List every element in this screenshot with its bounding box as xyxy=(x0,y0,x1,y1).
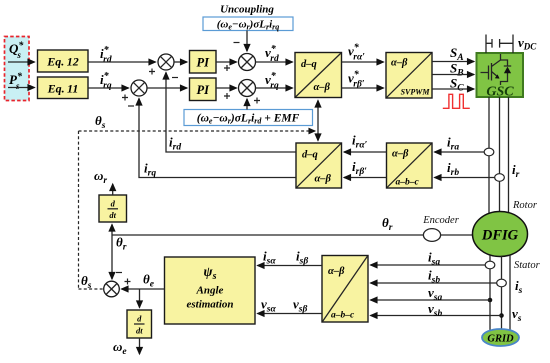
svg-text:Encoder: Encoder xyxy=(422,215,459,226)
svg-text:d: d xyxy=(111,199,116,209)
svg-text:estimation: estimation xyxy=(186,299,233,311)
svg-text:α–β: α–β xyxy=(392,149,409,160)
svg-text:α–β: α–β xyxy=(391,58,408,69)
block Eq.12 xyxy=(38,50,89,72)
wire theta-r down to J5 xyxy=(111,235,113,279)
svg-text:d–q: d–q xyxy=(302,150,318,161)
summing junction J3 xyxy=(224,43,256,72)
rotor phase wire A xyxy=(488,97,490,216)
svg-text:Eq. 12: Eq. 12 xyxy=(46,55,78,69)
encoder shaft wire xyxy=(112,234,473,236)
wire Ps* to Eq.11 xyxy=(8,87,35,89)
stator phase wire A xyxy=(489,255,491,331)
wire isb to abc block xyxy=(371,282,497,284)
svg-text:Uncoupling: Uncoupling xyxy=(220,4,274,16)
dc link capacitor C1 xyxy=(486,35,513,54)
wire J2 to PI2 xyxy=(147,87,187,89)
svg-text:DFIG: DFIG xyxy=(481,228,519,244)
wire dq1 to svpwm top xyxy=(342,61,384,63)
current sensor ira xyxy=(484,148,494,156)
tap node vsa xyxy=(488,298,493,303)
reference input dashed box Qs* Ps* xyxy=(5,37,30,101)
block Eq.11 xyxy=(38,77,89,99)
summing junction J5 xyxy=(104,273,131,297)
summing junction J1 xyxy=(149,54,178,78)
wire Qs* to Eq.12 xyxy=(8,61,35,63)
wire PI2 to junction J4 xyxy=(216,87,237,89)
svg-text:Rotor: Rotor xyxy=(512,200,538,211)
svg-text:d: d xyxy=(137,314,142,324)
wire vsa to abc block xyxy=(371,299,491,301)
converter block GSC xyxy=(477,53,524,100)
machine DFIG xyxy=(473,212,528,257)
wire ira to abc block xyxy=(435,151,485,153)
block ddt1 xyxy=(99,195,127,222)
svg-text:Angle: Angle xyxy=(196,285,224,297)
wire ddt1 to omega-r xyxy=(112,184,114,195)
svg-text:α–β: α–β xyxy=(315,174,332,185)
wire vsb to abc block xyxy=(371,315,502,317)
block SVPWM xyxy=(386,53,432,99)
svg-text:a–b–c: a–b–c xyxy=(331,311,355,321)
wire J3 to dq block 1 xyxy=(256,61,293,63)
svg-text:Stator: Stator xyxy=(514,260,541,271)
block PI 2 xyxy=(190,78,217,101)
wire dq1 to svpwm bottom xyxy=(342,87,384,89)
wire theta-e branch to ddt2 xyxy=(139,289,141,308)
wire ddt2 to omega-e xyxy=(139,338,141,354)
svg-text:α–β: α–β xyxy=(328,266,345,277)
svg-text:a–b–c: a–b–c xyxy=(396,178,420,188)
svg-text:α–β: α–β xyxy=(314,82,331,93)
rotor phase wire C xyxy=(508,97,510,214)
current sensor isa xyxy=(485,261,495,269)
encoder E1 xyxy=(423,229,440,242)
wire irb to abc block xyxy=(435,177,495,179)
dashed theta-s distribution wire xyxy=(79,131,316,289)
transform block U1 d-q to alpha-beta xyxy=(295,53,342,98)
stator phase wire C xyxy=(509,255,511,331)
wire Eq.11 to junction J2 xyxy=(88,87,129,89)
svg-text:dt: dt xyxy=(109,210,116,220)
grid source xyxy=(482,329,519,346)
wire isa to abc block xyxy=(371,264,486,266)
transform block U4 alpha-beta to abc stator xyxy=(322,256,368,323)
svg-text:PI: PI xyxy=(197,56,211,70)
wire irq feedback xyxy=(139,99,296,178)
wire box2 to J4 xyxy=(246,99,248,110)
svg-text:Eq. 11: Eq. 11 xyxy=(47,82,79,96)
svg-text:PI: PI xyxy=(197,83,211,97)
block PI 1 xyxy=(190,51,217,74)
stator phase wire B xyxy=(501,256,503,333)
wire vsalpha to angle block xyxy=(258,313,323,315)
wire SA svpwm to GSC xyxy=(432,61,474,63)
tap node vsb xyxy=(499,313,504,318)
uncoupling feedforward box 1 xyxy=(203,17,293,32)
svg-text:SVPWM: SVPWM xyxy=(401,88,431,97)
svg-text:d–q: d–q xyxy=(301,59,317,70)
svg-text:dt: dt xyxy=(136,326,143,336)
theta-s link between dq blocks xyxy=(317,101,319,141)
svg-text:GRID: GRID xyxy=(487,334,514,345)
block ddt2 xyxy=(127,310,152,338)
summing junction J2 xyxy=(122,80,147,106)
summing junction J4 xyxy=(224,80,260,104)
wire J1 to PI1 xyxy=(174,61,187,63)
wire theta-r up to ddt1 xyxy=(111,225,113,236)
transform block U2 alpha-beta to abc rotor xyxy=(387,143,433,188)
wire U2 to U3 bottom irb' xyxy=(344,177,387,179)
wire ird feedback xyxy=(166,73,296,153)
pwm pulse waveform xyxy=(443,94,470,108)
svg-text:GSC: GSC xyxy=(486,85,514,100)
wire J4 to dq block 1 xyxy=(256,87,293,89)
wire PI1 to junction J3 xyxy=(216,61,237,63)
wire box1 to J3 xyxy=(246,31,248,52)
uncoupling feedforward box 2 EMF xyxy=(184,110,313,126)
rotor phase wire B xyxy=(499,97,501,214)
block angle estimation xyxy=(165,257,256,324)
current sensor irb xyxy=(495,174,505,182)
wire theta-e to J5 xyxy=(122,288,165,290)
wire Eq.12 to junction J1 xyxy=(88,61,156,63)
wire isalpha to angle block xyxy=(258,265,323,267)
current sensor isb xyxy=(497,279,507,287)
wire SB svpwm to GSC xyxy=(432,74,474,76)
IGBT Q1 inside GSC xyxy=(481,54,512,85)
wire SC svpwm to GSC xyxy=(432,88,474,90)
wire U2 to U3 top ira' xyxy=(344,151,387,153)
transform block U3 d-q from alpha-beta rotor currents xyxy=(296,143,342,188)
